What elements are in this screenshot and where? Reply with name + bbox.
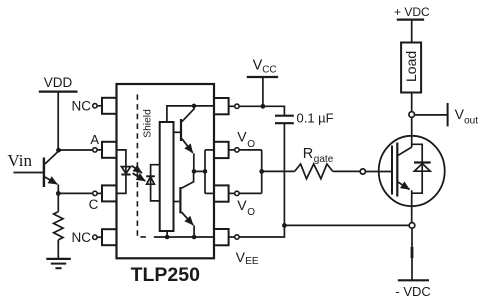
resistor R1 <box>54 212 63 240</box>
node VCC junction <box>261 104 266 109</box>
light arrow 1 <box>132 166 142 173</box>
pin 2 A rect <box>102 142 117 158</box>
transistor Q1 collector <box>45 150 59 164</box>
diode D3 bracket top <box>412 144 422 161</box>
LED D1 bracket <box>117 150 126 194</box>
pin 2 circle <box>97 149 102 151</box>
node VO junction <box>259 169 264 174</box>
svg-text:Vin: Vin <box>8 151 33 170</box>
wire pin 5 VEE <box>239 225 284 237</box>
node C junction <box>56 191 61 196</box>
node VEE junction <box>282 223 287 228</box>
pin 1 circle <box>97 105 102 107</box>
svg-text:out: out <box>464 115 478 126</box>
Q4 emitter lead <box>411 190 413 222</box>
transistor Q3 base lead <box>174 201 180 203</box>
svg-text:+ VDC: + VDC <box>394 5 430 19</box>
Vout terminal bar <box>447 103 449 126</box>
+VDC supply bar <box>397 19 424 21</box>
transistor Q3 collector <box>181 171 193 188</box>
svg-text:V: V <box>253 58 263 74</box>
wire +VDC to load <box>411 20 413 43</box>
svg-text:R: R <box>303 146 313 162</box>
transistor Q2 base bar <box>180 119 182 141</box>
load RL box <box>401 43 421 93</box>
wire load to Vout node <box>411 93 413 112</box>
wire node A to pin A <box>59 149 93 151</box>
ground <box>46 258 71 260</box>
pin 4 NC rect <box>102 229 117 245</box>
svg-text:CC: CC <box>262 65 276 76</box>
transistor Q2 base lead <box>174 131 181 133</box>
diode D3 <box>414 161 431 163</box>
svg-text:C: C <box>89 197 99 212</box>
svg-text:Load: Load <box>403 51 419 82</box>
pin 7 VO rect <box>214 142 229 158</box>
svg-text:V: V <box>237 128 247 144</box>
pin 5 circle <box>229 236 235 238</box>
wire Rgate to gate terminal <box>333 170 360 172</box>
VCC supply bar <box>247 76 278 78</box>
internal VCC rail <box>167 106 214 122</box>
wire node C to pin C <box>58 192 92 194</box>
transistor Q2 collector <box>182 106 194 122</box>
svg-text:gate: gate <box>314 154 334 165</box>
pin 1 NC rect <box>102 98 117 114</box>
amp ground stub <box>166 231 168 237</box>
svg-text:O: O <box>247 207 255 218</box>
rail junction 3 <box>192 235 197 240</box>
pin 8 rect <box>214 98 229 114</box>
svg-text:TLP250: TLP250 <box>131 264 201 286</box>
svg-text:Shield: Shield <box>143 109 154 138</box>
internal VO bracket <box>204 150 206 194</box>
-VDC supply bar <box>398 279 429 281</box>
pin 3 C rect <box>102 185 117 201</box>
rail junction 2 <box>165 235 170 240</box>
wire VDD to collector node <box>57 92 59 151</box>
Q4 emitter slant <box>398 182 410 190</box>
pin 5 VEE rect <box>214 229 229 245</box>
wire VCC bar down <box>262 77 264 106</box>
svg-text:0.1 µF: 0.1 µF <box>297 110 334 125</box>
VO bracket wire <box>261 150 263 194</box>
wire emitter node to -VDC <box>411 228 413 280</box>
wire capacitor to VEE node <box>283 124 285 225</box>
wire pin 7 <box>239 149 262 151</box>
transistor Q1 emitter <box>45 177 57 184</box>
pin 6 circle <box>229 192 235 194</box>
internal VEE rail <box>154 236 214 238</box>
wire resistor to ground <box>57 240 59 258</box>
wire pin 6 <box>239 192 262 194</box>
node A junction <box>56 148 61 153</box>
transistor Q3 emitter <box>181 212 193 225</box>
transistor Q1 base lead <box>13 172 43 174</box>
shield dashed line <box>137 94 146 237</box>
wire thick segment <box>411 247 414 258</box>
rail junction <box>192 104 197 109</box>
wire VO node to Rgate <box>262 170 295 172</box>
op-amp U1 TLP250 body <box>117 84 215 258</box>
wire VCC node to capacitor <box>263 106 285 115</box>
VDD supply bar <box>39 90 78 92</box>
node Vout terminal <box>409 112 415 118</box>
svg-text:O: O <box>247 139 255 150</box>
wire terminal to IGBT gate <box>366 171 392 173</box>
wire Vout node to IGBT collector <box>411 117 413 147</box>
gate terminal <box>360 169 365 174</box>
svg-text:NC: NC <box>72 230 92 245</box>
svg-text:V: V <box>236 249 246 265</box>
pin 3 circle <box>97 192 102 194</box>
transistor Q4 IGBT circle <box>379 136 445 206</box>
svg-text:V: V <box>455 106 465 122</box>
output node junction <box>192 169 197 174</box>
svg-text:NC: NC <box>72 98 92 113</box>
svg-text:A: A <box>90 132 99 147</box>
pin 8 circle <box>229 105 235 107</box>
diode D3 bracket bottom <box>412 163 422 194</box>
svg-text:V: V <box>237 197 247 213</box>
wire Vout branch <box>415 114 448 116</box>
Q4 gate bar <box>391 146 393 195</box>
wire VEE node to emitter node <box>284 224 409 226</box>
amplifier block <box>160 122 174 231</box>
transistor Q2 emitter <box>182 139 193 153</box>
transistor Q1 base bar <box>43 158 45 188</box>
Q4 body bar <box>396 143 398 197</box>
pin 7 circle <box>229 149 235 151</box>
photodiode D2 <box>146 175 155 177</box>
wire pin8 to VCC node <box>239 105 263 107</box>
pin 6 VO rect <box>214 185 229 201</box>
node emitter terminal <box>409 223 415 229</box>
wire node C to resistor <box>57 193 59 211</box>
photodiode D2 bracket <box>151 165 160 201</box>
pin 4 circle <box>97 236 102 238</box>
Q4 collector slant <box>398 147 412 156</box>
svg-text:EE: EE <box>245 256 259 267</box>
svg-text:VDD: VDD <box>44 75 73 90</box>
transistor Q3 base bar <box>179 187 181 213</box>
LED D1 <box>121 167 130 174</box>
capacitor C1 <box>275 115 294 117</box>
bracket junction <box>203 169 208 174</box>
svg-text:- VDC: - VDC <box>395 284 430 299</box>
wire output node to bracket <box>194 170 205 172</box>
wire Q1 emitter to node <box>57 184 59 193</box>
light arrow 2 <box>133 173 146 181</box>
resistor Rgate <box>295 164 333 179</box>
